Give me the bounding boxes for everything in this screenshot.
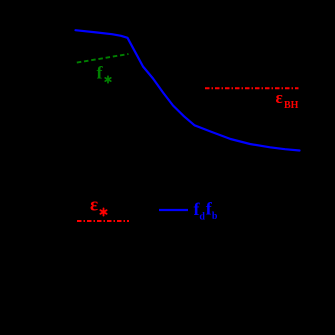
svg-text:d: d (199, 211, 205, 222)
svg-text:b: b (212, 211, 218, 222)
svg-text:ε: ε (276, 88, 283, 107)
svg-text:f: f (97, 63, 104, 83)
svg-text:ε: ε (90, 195, 98, 216)
svg-text:BH: BH (284, 100, 299, 111)
